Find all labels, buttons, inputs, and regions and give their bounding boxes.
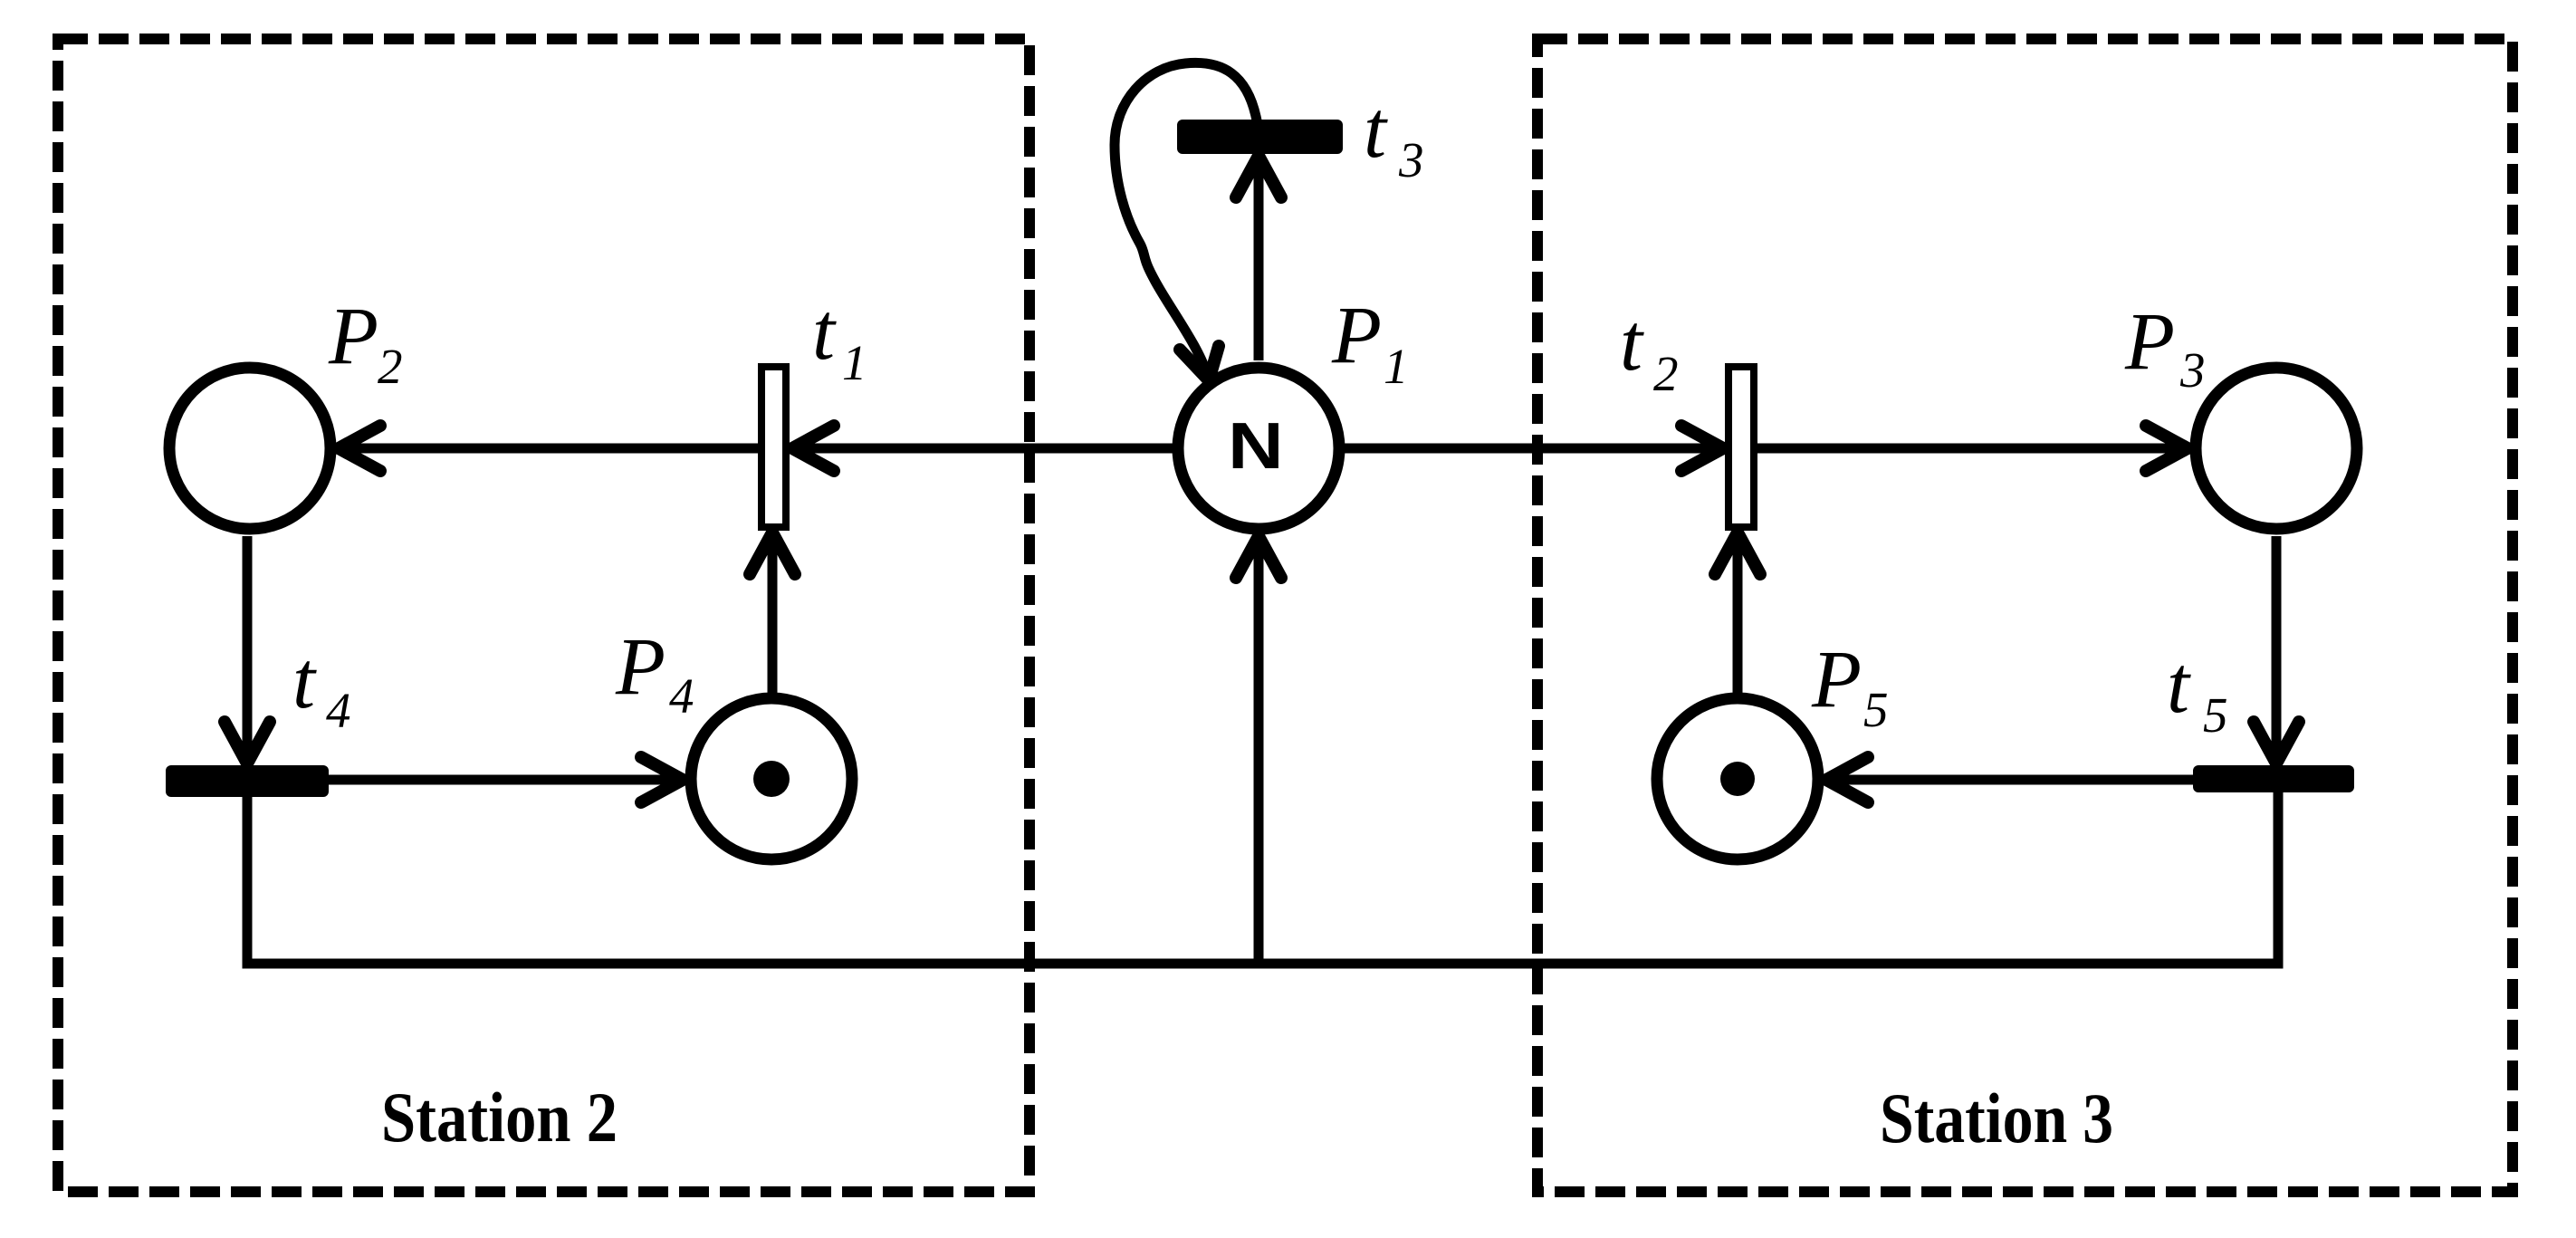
arrowhead into t5 top	[2254, 722, 2299, 763]
svg-text:4: 4	[669, 668, 694, 724]
arrowhead into P3 left side	[2146, 426, 2188, 471]
svg-text:2: 2	[1653, 346, 1679, 401]
wire P5 up to t2	[1733, 534, 1743, 694]
svg-text:P: P	[328, 292, 378, 381]
transition t5 (filled bar)	[2193, 765, 2354, 792]
arrowhead of self-loop into P1 top-left	[1180, 346, 1219, 380]
place P5	[1657, 698, 1818, 859]
svg-text:P: P	[2124, 297, 2175, 387]
arrowhead into t2 bottom	[1715, 533, 1760, 574]
arrowhead into P5 right side	[1826, 757, 1868, 802]
svg-text:2: 2	[378, 339, 403, 394]
arrowhead into t2 left side	[1681, 426, 1723, 471]
svg-text:4: 4	[326, 683, 351, 738]
token in P5	[1720, 762, 1755, 796]
wire t2 to P3	[1757, 444, 2186, 454]
wire P2 down to t4	[243, 536, 253, 762]
svg-text:t: t	[1364, 85, 1388, 175]
wire t4 bottom to bottom rail to t5 bottom	[247, 792, 2278, 964]
wire bottom rail up to P1	[1254, 540, 1264, 964]
Station 3 dashed boundary box	[1537, 39, 2513, 1192]
self-loop arc t3 to P1	[1115, 62, 1257, 377]
svg-text:1: 1	[842, 335, 867, 390]
svg-text:3: 3	[1398, 132, 1424, 187]
svg-text:5: 5	[2203, 687, 2228, 743]
svg-text:t: t	[812, 287, 837, 377]
wire t4 to P4	[329, 775, 680, 785]
transition t1 (open bar)	[761, 367, 786, 527]
svg-text:t: t	[1620, 298, 1644, 388]
svg-text:P: P	[615, 622, 666, 712]
svg-text:5: 5	[1863, 682, 1889, 737]
svg-text:3: 3	[2179, 342, 2206, 398]
place P3	[2196, 368, 2357, 529]
wire t1 to P2	[342, 444, 758, 454]
arrowhead into t3 bottom	[1236, 156, 1281, 197]
svg-text:Station 3: Station 3	[1880, 1079, 2113, 1157]
arrowhead into P4 left side	[641, 757, 683, 802]
arrowhead into t4 top	[225, 722, 270, 763]
arrowhead into P1 bottom	[1236, 536, 1281, 578]
place P2	[169, 368, 330, 529]
wire P1 to t1	[792, 444, 1173, 454]
svg-text:P: P	[1331, 291, 1382, 380]
transition t3 (filled bar)	[1177, 120, 1343, 154]
place P4	[691, 698, 852, 859]
wire P3 down to t5	[2272, 536, 2282, 762]
token in P4	[753, 761, 790, 797]
svg-text:Station 2: Station 2	[381, 1078, 618, 1156]
transition t2 (open bar)	[1729, 367, 1754, 527]
transition t4 (filled bar)	[166, 765, 329, 797]
wire P4 up to t1	[768, 534, 778, 694]
svg-text:t: t	[292, 636, 317, 725]
svg-text:P: P	[1811, 635, 1862, 725]
wire t5 to P5	[1828, 775, 2193, 785]
svg-text:N: N	[1228, 409, 1284, 482]
wire P1 up to t3	[1254, 158, 1264, 360]
wire P1 to t2	[1344, 444, 1721, 454]
arrowhead into t1 bottom	[750, 533, 795, 574]
svg-text:t: t	[2167, 640, 2191, 730]
arrowhead into t1 right side	[792, 426, 834, 471]
Station 2 dashed boundary box	[58, 39, 1029, 1192]
arrowhead into P2 right side	[339, 426, 380, 471]
place P1	[1178, 368, 1339, 529]
svg-text:1: 1	[1384, 339, 1409, 394]
